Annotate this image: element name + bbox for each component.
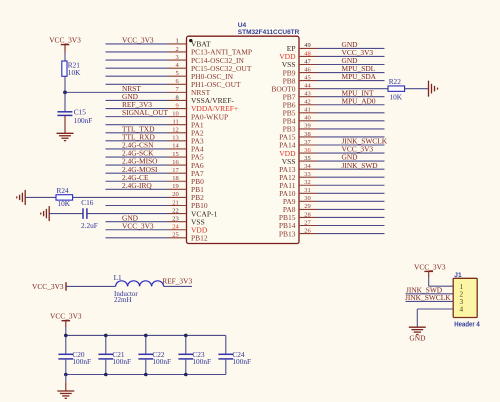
pin 39 PB3 (right) bbox=[283, 123, 385, 134]
IC U4 STM32F411CCU6TR body rectangle with pin-1 marker bbox=[187, 36, 300, 243]
svg-text:33: 33 bbox=[304, 171, 311, 178]
capacitor C15 bbox=[57, 107, 92, 124]
ground (left of C16) bbox=[41, 206, 49, 221]
svg-text:JINK_SWCLK: JINK_SWCLK bbox=[405, 293, 451, 302]
pin 5 PH0-OSC_IN (left) bbox=[106, 70, 234, 81]
pin 28 PB15 (right) bbox=[279, 211, 385, 222]
capacitor C22 bbox=[138, 335, 171, 374]
pin 9 VDDA/VREF+ (left) bbox=[106, 102, 239, 113]
junction dots on cap buses bbox=[64, 334, 188, 377]
svg-text:GND: GND bbox=[409, 334, 426, 343]
svg-text:VCC_3V3: VCC_3V3 bbox=[32, 282, 64, 291]
svg-text:14: 14 bbox=[172, 143, 179, 150]
pin 31 PA10 (right) bbox=[279, 187, 384, 198]
pin 25 PB12 (left) bbox=[106, 232, 208, 243]
capacitor C21 bbox=[98, 335, 131, 374]
svg-text:VCC_3V3: VCC_3V3 bbox=[122, 221, 154, 230]
svg-text:PB12: PB12 bbox=[191, 234, 208, 243]
svg-text:47: 47 bbox=[304, 58, 311, 65]
pin 21 PB10 (left) bbox=[106, 199, 208, 210]
svg-text:49: 49 bbox=[304, 42, 311, 49]
svg-text:27: 27 bbox=[304, 219, 311, 226]
pin 17 PA7 (left) bbox=[106, 167, 204, 178]
svg-text:21: 21 bbox=[172, 199, 179, 206]
svg-text:31: 31 bbox=[304, 187, 311, 194]
svg-text:26: 26 bbox=[304, 227, 311, 234]
svg-text:12: 12 bbox=[172, 127, 179, 134]
pin 43 PB7 (right) bbox=[283, 91, 385, 102]
wire C15 to ground bbox=[64, 115, 66, 133]
svg-text:22mH: 22mH bbox=[114, 296, 132, 304]
power port VCC_3V3 (top left) bbox=[49, 35, 81, 52]
power port VCC_3V3 (bottom caps) bbox=[50, 311, 82, 327]
svg-text:23: 23 bbox=[172, 215, 179, 222]
pin 10 PA0-WKUP (left) bbox=[106, 110, 229, 121]
wire VCC down to top bus bbox=[65, 327, 67, 335]
svg-text:2.2uF: 2.2uF bbox=[81, 221, 98, 230]
svg-text:18: 18 bbox=[172, 175, 179, 182]
pin 27 PB14 (right) bbox=[279, 219, 385, 230]
svg-text:48: 48 bbox=[304, 50, 311, 57]
pin 33 PA12 (right) bbox=[279, 171, 384, 182]
pin 30 PA9 (right) bbox=[283, 195, 385, 206]
pin 35 VSS (right) bbox=[282, 155, 385, 166]
svg-text:100nF: 100nF bbox=[72, 357, 91, 366]
svg-text:10K: 10K bbox=[58, 199, 71, 208]
svg-text:100nF: 100nF bbox=[192, 357, 211, 366]
svg-text:11: 11 bbox=[173, 119, 179, 126]
pin 12 PA2 (left) bbox=[106, 127, 204, 138]
svg-text:C16: C16 bbox=[81, 198, 94, 207]
wire VCC_3V3 to L1 bbox=[66, 285, 116, 287]
pin 11 PA1 (left) bbox=[106, 119, 204, 130]
svg-text:35: 35 bbox=[304, 155, 311, 162]
pin 24 VDD (left) bbox=[106, 224, 208, 235]
svg-text:J1: J1 bbox=[454, 272, 462, 279]
wire bottom bus to ground bbox=[65, 375, 67, 391]
svg-text:1: 1 bbox=[176, 38, 179, 45]
wire VCC to header pin 1 bbox=[429, 277, 454, 286]
svg-text:10K: 10K bbox=[390, 92, 403, 101]
wire node to C15 bbox=[64, 92, 66, 111]
svg-text:REF_3V3: REF_3V3 bbox=[162, 276, 192, 285]
resistor R22 bbox=[388, 77, 405, 102]
svg-text:44: 44 bbox=[304, 82, 311, 89]
pin 13 PA3 (left) bbox=[106, 135, 204, 146]
ground (left of R24) bbox=[17, 190, 25, 205]
pin 20 PB2 (left) bbox=[73, 191, 205, 202]
svg-text:25: 25 bbox=[172, 232, 179, 239]
svg-text:100nF: 100nF bbox=[74, 116, 93, 125]
svg-text:R22: R22 bbox=[389, 77, 402, 86]
svg-text:36: 36 bbox=[304, 147, 311, 154]
svg-text:100nF: 100nF bbox=[152, 357, 171, 366]
svg-text:46: 46 bbox=[304, 66, 311, 73]
svg-text:100nF: 100nF bbox=[232, 357, 251, 366]
resistor R21 bbox=[62, 60, 81, 77]
svg-text:37: 37 bbox=[304, 139, 311, 146]
svg-text:19: 19 bbox=[172, 183, 179, 190]
svg-text:34: 34 bbox=[304, 163, 311, 170]
pin 44 BOOT0 (right) bbox=[271, 82, 388, 93]
svg-text:38: 38 bbox=[304, 131, 311, 138]
svg-text:L1: L1 bbox=[114, 273, 122, 282]
svg-text:45: 45 bbox=[304, 74, 311, 81]
svg-text:2: 2 bbox=[176, 46, 179, 53]
svg-text:17: 17 bbox=[172, 167, 179, 174]
svg-text:2.4G-IRQ: 2.4G-IRQ bbox=[122, 181, 152, 190]
capacitor C20 bbox=[58, 335, 91, 374]
pin 48 VDD (right) bbox=[279, 50, 384, 61]
pin 8 VSSA/VREF- (left) bbox=[106, 94, 235, 105]
pin 29 PA8 (right) bbox=[283, 203, 385, 214]
capacitor C23 bbox=[178, 335, 211, 374]
wire ground to R24 bbox=[25, 196, 56, 198]
svg-text:43: 43 bbox=[304, 91, 311, 98]
svg-text:4: 4 bbox=[460, 306, 464, 314]
svg-text:10: 10 bbox=[172, 110, 179, 117]
svg-text:40: 40 bbox=[304, 115, 311, 122]
svg-text:24: 24 bbox=[172, 224, 179, 231]
svg-text:VCC_3V3: VCC_3V3 bbox=[122, 36, 154, 45]
svg-text:MPU_AD0: MPU_AD0 bbox=[342, 96, 376, 105]
wire top bus bbox=[66, 334, 226, 336]
capacitor C16 bbox=[81, 198, 98, 230]
pin 6 PH1-OSC_OUT (left) bbox=[106, 78, 242, 89]
svg-text:100nF: 100nF bbox=[112, 357, 131, 366]
wire R22 to ground bbox=[405, 88, 429, 90]
wire ground to C16 bbox=[49, 213, 83, 215]
connector J1 Header 4 bbox=[453, 278, 477, 317]
pin 1 VBAT (left) bbox=[106, 38, 212, 49]
svg-text:41: 41 bbox=[304, 107, 311, 114]
ground (below caps) bbox=[57, 391, 74, 398]
pin 26 PB13 (right) bbox=[279, 227, 385, 238]
pin 38 PA15 (right) bbox=[279, 131, 384, 142]
svg-text:29: 29 bbox=[304, 203, 311, 210]
pin 36 VDD (right) bbox=[279, 147, 384, 158]
svg-text:28: 28 bbox=[304, 211, 311, 218]
pin 7 NRST (left) bbox=[65, 86, 211, 97]
svg-text:5: 5 bbox=[176, 70, 179, 77]
pin 3 PC14-OSC32_IN (left) bbox=[106, 54, 245, 65]
pin 34 PA13 (right) bbox=[279, 163, 384, 174]
pin 14 PA4 (left) bbox=[106, 143, 204, 154]
pin 23 VSS (left) bbox=[106, 215, 205, 226]
svg-text:9: 9 bbox=[176, 102, 179, 109]
wire VCC_3V3 to R21 bbox=[64, 53, 66, 62]
svg-text:16: 16 bbox=[172, 159, 179, 166]
svg-text:42: 42 bbox=[304, 99, 311, 106]
pin 41 PB5 (right) bbox=[283, 107, 385, 118]
ground (below C15) bbox=[57, 133, 74, 140]
pin 22 VCAP-1 (left) bbox=[87, 207, 218, 218]
pin 42 PB6 (right) bbox=[283, 99, 385, 110]
pin 40 PB4 (right) bbox=[283, 115, 385, 126]
svg-text:30: 30 bbox=[304, 195, 311, 202]
pin 15 PA5 (left) bbox=[106, 151, 204, 162]
wire bottom bus bbox=[66, 374, 226, 376]
pin 47 VSS (right) bbox=[282, 58, 385, 69]
svg-text:22: 22 bbox=[172, 207, 179, 214]
svg-text:13: 13 bbox=[172, 135, 179, 142]
wire R21 to node NRST bbox=[64, 76, 66, 92]
wire JINK_SWD to header pin 2 bbox=[406, 293, 454, 295]
node NRST junction bbox=[63, 91, 67, 95]
pin 49 EP (right) bbox=[287, 42, 385, 53]
svg-text:10K: 10K bbox=[68, 68, 81, 77]
svg-text:VCC_3V3: VCC_3V3 bbox=[49, 35, 81, 44]
pin 19 PB1 (left) bbox=[106, 183, 205, 194]
pin 45 PB8 (right) bbox=[283, 74, 385, 85]
pin 37 PA14 (right) bbox=[279, 139, 384, 150]
svg-text:MPU_SDA: MPU_SDA bbox=[342, 72, 377, 81]
power port VCC_3V3 (inductor row) bbox=[32, 282, 66, 291]
pin 2 PC13-ANTI_TAMP (left) bbox=[106, 46, 253, 57]
svg-text:SIGNAL_OUT: SIGNAL_OUT bbox=[122, 108, 168, 117]
svg-text:15: 15 bbox=[172, 151, 179, 158]
svg-text:Header 4: Header 4 bbox=[454, 321, 480, 328]
svg-text:VCC_3V3: VCC_3V3 bbox=[50, 311, 82, 320]
pin 46 PB9 (right) bbox=[283, 66, 385, 77]
svg-text:R24: R24 bbox=[57, 186, 70, 195]
wire L1 to REF_3V3 bbox=[164, 285, 192, 287]
svg-text:JINK_SWD: JINK_SWD bbox=[342, 161, 379, 170]
svg-text:STM32F411CCU6TR: STM32F411CCU6TR bbox=[238, 29, 300, 36]
pin 16 PA6 (left) bbox=[106, 159, 204, 170]
svg-text:32: 32 bbox=[304, 179, 311, 186]
svg-text:8: 8 bbox=[176, 94, 179, 101]
svg-text:39: 39 bbox=[304, 123, 311, 130]
inductor L1 bbox=[114, 273, 164, 304]
ground (below header) bbox=[409, 327, 426, 334]
svg-text:20: 20 bbox=[172, 191, 179, 198]
power port VCC_3V3 (header) bbox=[414, 262, 446, 277]
wire JINK_SWCLK to header pin 3 bbox=[406, 300, 454, 302]
ground (right of R22) bbox=[429, 81, 438, 97]
svg-text:PB13: PB13 bbox=[279, 229, 296, 238]
pin 32 PA11 (right) bbox=[279, 179, 384, 190]
pin 4 PC15-OSC32_OUT (left) bbox=[106, 62, 252, 73]
resistor R24 bbox=[56, 186, 73, 208]
svg-text:VCC_3V3: VCC_3V3 bbox=[414, 262, 446, 271]
pin 18 PB0 (left) bbox=[106, 175, 205, 186]
svg-text:3: 3 bbox=[176, 54, 179, 61]
capacitor C24 bbox=[218, 335, 251, 374]
wire header pin 4 to ground bbox=[417, 309, 453, 327]
